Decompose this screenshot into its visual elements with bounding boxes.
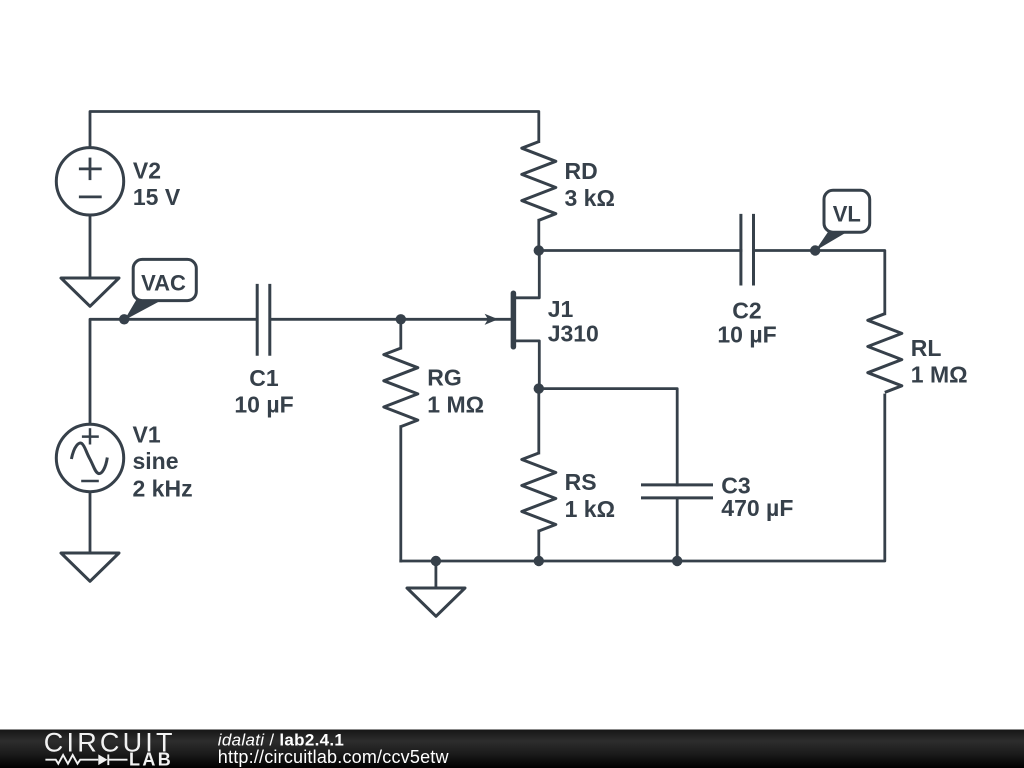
transistor J1 (N-JFET) [485, 293, 514, 347]
svg-text:C2: C2 [732, 298, 761, 324]
label RL [911, 335, 968, 388]
footer bar [0, 730, 1024, 768]
wire V2 to ground [89, 216, 92, 278]
label RS [565, 469, 615, 522]
ground (bottom) [407, 588, 465, 616]
node dot VAC [119, 314, 129, 324]
ground (V1) [61, 553, 119, 581]
svg-text:1 MΩ: 1 MΩ [427, 392, 484, 418]
svg-text:15 V: 15 V [133, 184, 181, 210]
capacitor C3 [641, 485, 713, 498]
node dot RS-rail [534, 556, 544, 566]
svg-text:J310: J310 [548, 320, 599, 346]
wire bottom rail [401, 395, 885, 561]
node VL flag [815, 190, 870, 250]
wire C1 to gate [271, 318, 510, 321]
svg-text:10 µF: 10 µF [234, 392, 293, 418]
capacitor C2 [741, 214, 754, 286]
wire ground stem bottom [434, 561, 437, 588]
wire V1 to ground [89, 493, 92, 553]
svg-text:http://circuitlab.com/ccv5etw: http://circuitlab.com/ccv5etw [218, 747, 450, 767]
node dot ground-rail [431, 556, 441, 566]
resistor RG [384, 348, 418, 427]
svg-text:10 µF: 10 µF [717, 322, 776, 348]
svg-text:RG: RG [427, 365, 462, 391]
svg-text:V1: V1 [133, 421, 161, 447]
svg-text:sine: sine [133, 448, 179, 474]
capacitor C1 [257, 284, 270, 356]
resistor RS [522, 453, 556, 531]
wire C2 to RL [754, 251, 885, 314]
label V2 [133, 158, 181, 211]
node dot gate [396, 314, 406, 324]
label RD [565, 158, 615, 211]
svg-text:RD: RD [565, 158, 598, 184]
logo resistor-diode glyph [45, 754, 127, 765]
resistor RD [522, 142, 556, 221]
node dot source [534, 383, 544, 393]
ground (V2) [61, 278, 119, 306]
svg-text:V2: V2 [133, 158, 161, 184]
svg-text:VL: VL [833, 202, 861, 227]
wire RG bottom to rail [399, 427, 402, 561]
resistor RL [868, 314, 902, 393]
label J1 [548, 296, 599, 346]
svg-text:1 MΩ: 1 MΩ [911, 362, 968, 388]
voltage source V2 [56, 148, 123, 215]
label RG [427, 365, 484, 418]
wire top rail V2 to RD [90, 112, 539, 147]
wire drain link [516, 251, 539, 298]
svg-text:LAB: LAB [129, 750, 173, 768]
node dot drain [534, 245, 544, 255]
wire source link [516, 341, 539, 389]
svg-text:2 kHz: 2 kHz [133, 475, 193, 501]
wire RD bottom to drain node [537, 220, 540, 250]
svg-text:C1: C1 [249, 365, 279, 391]
wire source to C3 [539, 389, 677, 485]
wire C3 bottom [676, 498, 679, 561]
node VAC flag [124, 259, 196, 320]
voltage source V1 [56, 424, 123, 491]
wire VAC rail left segment [90, 319, 256, 423]
label C2 [717, 298, 776, 348]
node dot VL [810, 245, 820, 255]
svg-text:RS: RS [565, 469, 597, 495]
label C3 [721, 473, 793, 522]
wire source node to RS [537, 389, 540, 453]
svg-text:470 µF: 470 µF [721, 495, 793, 521]
svg-text:J1: J1 [548, 296, 574, 322]
node dot C3-rail [672, 556, 682, 566]
svg-text:3 kΩ: 3 kΩ [565, 185, 615, 211]
wire drain node to C2 [539, 249, 741, 252]
wire RS bottom [537, 531, 540, 561]
label V1 [133, 421, 193, 501]
label C1 [234, 365, 293, 417]
svg-text:RL: RL [911, 335, 942, 361]
svg-text:VAC: VAC [141, 270, 186, 295]
wire RG top [399, 319, 402, 348]
svg-text:1 kΩ: 1 kΩ [565, 496, 615, 522]
